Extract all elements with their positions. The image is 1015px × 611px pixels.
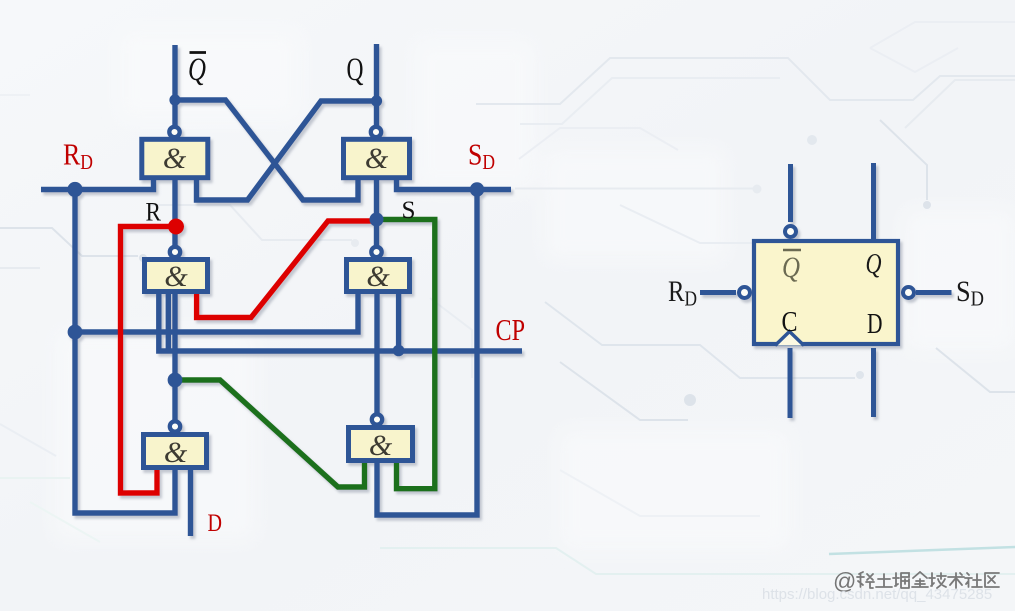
wire Q output vertical — [374, 44, 379, 127]
gate G3 (NAND) — [145, 247, 208, 293]
node Qbar junction — [169, 94, 180, 105]
gate G5 (NAND) — [144, 421, 207, 469]
svg-text:C: C — [782, 306, 798, 338]
svg-text:Q: Q — [188, 52, 206, 88]
node CP to G4 — [393, 345, 405, 357]
wire RD input line — [41, 174, 154, 190]
svg-text:D: D — [867, 308, 883, 340]
svg-text:&: & — [366, 260, 390, 293]
wire D lead (bottom-right) — [871, 348, 876, 417]
flip-flop body — [754, 241, 898, 344]
node SD line junction — [470, 182, 484, 196]
wire green set-0 blocking line (G5 out to G6) — [175, 380, 365, 487]
svg-text:Q: Q — [782, 251, 800, 284]
bubble RD (left) — [739, 287, 750, 298]
bubble SD (right) — [903, 287, 914, 298]
wire cross-couple A (Qbar to G2 input) — [175, 100, 358, 200]
flip-flop symbol U1 — [700, 163, 952, 418]
wire SD rail down to G6 — [377, 190, 477, 516]
node RD line junction — [67, 182, 82, 197]
wire SD input line — [397, 174, 512, 190]
gate G4 (NAND) — [347, 247, 410, 293]
node Q junction — [371, 95, 382, 106]
gate G6 (NAND) — [349, 414, 413, 462]
svg-text:&: & — [164, 260, 188, 293]
svg-text:Q: Q — [866, 248, 882, 280]
wire G3 input from G5 output — [172, 292, 177, 422]
wire G3 stub to CP — [166, 292, 171, 351]
wire Q lead (top-right) — [871, 163, 876, 240]
clock edge triangle — [775, 332, 804, 346]
svg-text:R: R — [146, 198, 162, 227]
wire cross-couple B (Q to G1 input) — [197, 101, 377, 200]
label Qbar (top) — [188, 52, 206, 88]
bubble Qbar (top) — [785, 226, 796, 237]
svg-text:&: & — [164, 436, 188, 469]
svg-text:https://blog.csdn.net/qq_43475: https://blog.csdn.net/qq_43475285 — [762, 586, 992, 603]
wire red blocking line (G3 input from S) — [197, 221, 374, 318]
pin label Qbar — [782, 250, 801, 284]
wire G4 output to G6 input — [374, 292, 379, 415]
node R (red) — [168, 219, 184, 235]
wire RD branch to G4 input — [75, 292, 358, 332]
svg-text:Q: Q — [347, 52, 364, 88]
wire SD lead (right) — [916, 290, 952, 295]
gate G2 (NAND) — [344, 127, 410, 178]
svg-text:&: & — [365, 142, 389, 175]
wire G4 stub to CP — [396, 292, 401, 351]
wire D input — [188, 468, 193, 536]
wire red set-0 maintain line (R to G5) — [121, 227, 177, 494]
svg-text:&: & — [369, 429, 393, 462]
wire RD lead (left) — [700, 290, 736, 295]
wire CP line — [159, 292, 522, 351]
wire C lead (bottom-left) — [788, 348, 793, 418]
node S — [370, 213, 384, 227]
gate G1 (NAND) — [142, 127, 208, 178]
svg-text:CP: CP — [496, 312, 526, 347]
node G5 output branch — [168, 373, 183, 388]
wire green set-1 blocking line (S to G6) — [377, 220, 435, 489]
wire G2 output to G4 input (node S) — [374, 175, 379, 248]
wire Qbar lead (top-left) — [788, 164, 793, 222]
wire RD rail down to G5 — [75, 190, 175, 514]
wire G1 output to G3 input (node R) — [172, 175, 177, 248]
node RD rail branch — [68, 325, 83, 340]
watermark — [833, 568, 999, 594]
svg-text:S: S — [402, 197, 416, 224]
svg-text:D: D — [208, 510, 223, 537]
wire Qbar output vertical — [172, 45, 177, 127]
svg-text:&: & — [163, 142, 187, 175]
